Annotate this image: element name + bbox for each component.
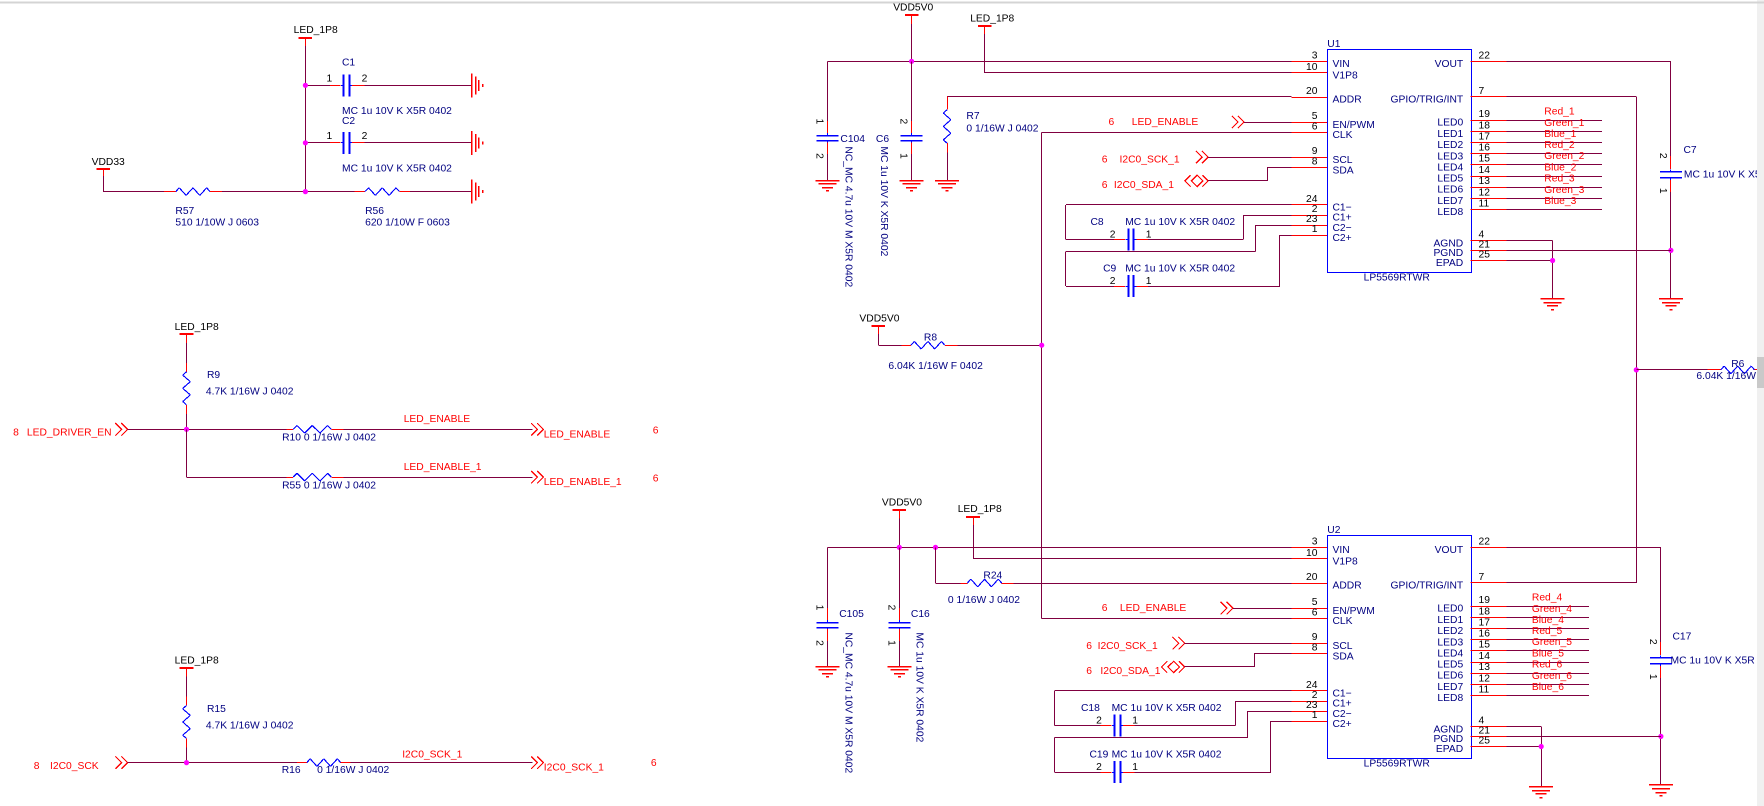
svg-text:10: 10 [1306, 548, 1318, 559]
svg-text:R55 0 1/16W J 0402: R55 0 1/16W J 0402 [282, 481, 376, 492]
svg-text:25: 25 [1479, 250, 1491, 261]
svg-text:GPIO/TRIG/INT: GPIO/TRIG/INT [1391, 95, 1464, 106]
svg-text:C18: C18 [1081, 703, 1100, 714]
svg-text:R57: R57 [175, 206, 194, 217]
svg-text:MC 1u 10V K X5R 0402: MC 1u 10V K X5R 0402 [1671, 655, 1764, 666]
svg-text:1: 1 [1146, 230, 1152, 241]
svg-text:4.7K 1/16W J 0402: 4.7K 1/16W J 0402 [206, 720, 294, 731]
svg-text:SDA: SDA [1333, 165, 1354, 176]
svg-text:LED6: LED6 [1437, 671, 1463, 682]
svg-text:R56: R56 [365, 206, 384, 217]
svg-text:R6: R6 [1731, 359, 1744, 370]
svg-text:2: 2 [1110, 276, 1116, 287]
svg-text:20: 20 [1306, 86, 1318, 97]
svg-text:LED7: LED7 [1437, 196, 1463, 207]
svg-text:8: 8 [13, 427, 19, 438]
svg-text:LED0: LED0 [1437, 604, 1463, 615]
svg-text:12: 12 [1479, 187, 1491, 198]
svg-text:2: 2 [814, 640, 825, 646]
svg-text:I2C0_SDA_1: I2C0_SDA_1 [1114, 180, 1174, 191]
svg-text:25: 25 [1479, 736, 1491, 747]
svg-text:2: 2 [1647, 639, 1658, 645]
svg-text:R16: R16 [282, 765, 301, 776]
svg-text:LED2: LED2 [1437, 626, 1463, 637]
svg-text:Red_6: Red_6 [1532, 660, 1563, 671]
svg-text:2: 2 [814, 153, 825, 159]
svg-text:MC 1u 10V K X5R 0402: MC 1u 10V K X5R 0402 [1112, 703, 1222, 714]
svg-text:15: 15 [1479, 640, 1491, 651]
svg-text:6: 6 [653, 426, 659, 437]
svg-text:CLK: CLK [1333, 130, 1353, 141]
svg-text:U1: U1 [1327, 39, 1340, 50]
svg-text:0 1/16W J 0402: 0 1/16W J 0402 [317, 765, 389, 776]
svg-text:LED_ENABLE_1: LED_ENABLE_1 [404, 462, 482, 473]
svg-text:LP5569RTWR: LP5569RTWR [1364, 759, 1430, 770]
svg-text:I2C0_SCK_1: I2C0_SCK_1 [1120, 154, 1180, 165]
svg-text:LED1: LED1 [1437, 129, 1463, 140]
svg-text:8: 8 [1312, 643, 1318, 654]
svg-text:12: 12 [1479, 673, 1491, 684]
svg-text:620 1/10W F 0603: 620 1/10W F 0603 [365, 218, 450, 229]
svg-text:Blue_5: Blue_5 [1532, 649, 1564, 660]
svg-text:22: 22 [1479, 536, 1491, 547]
svg-text:22: 22 [1479, 50, 1491, 61]
svg-text:19: 19 [1479, 595, 1491, 606]
svg-text:6: 6 [1086, 641, 1092, 652]
svg-text:C16: C16 [911, 609, 930, 620]
svg-text:2: 2 [362, 131, 368, 142]
svg-text:LED_1P8: LED_1P8 [175, 656, 219, 667]
svg-text:19: 19 [1479, 109, 1491, 120]
svg-text:8: 8 [34, 761, 40, 772]
svg-text:6: 6 [1312, 122, 1318, 133]
svg-text:GPIO/TRIG/INT: GPIO/TRIG/INT [1391, 581, 1464, 592]
svg-text:3: 3 [1312, 50, 1318, 61]
svg-text:MC 1u 10V K X5R 0402: MC 1u 10V K X5R 0402 [878, 146, 889, 256]
svg-text:5: 5 [1312, 111, 1318, 122]
svg-text:Red_5: Red_5 [1532, 626, 1563, 637]
svg-text:16: 16 [1479, 629, 1491, 640]
svg-text:LED_1P8: LED_1P8 [970, 13, 1014, 24]
svg-text:C104: C104 [840, 134, 865, 145]
svg-text:VIN: VIN [1333, 545, 1350, 556]
svg-text:1: 1 [898, 153, 909, 159]
svg-text:C7: C7 [1684, 145, 1697, 156]
svg-text:1: 1 [1132, 716, 1138, 727]
svg-text:14: 14 [1479, 651, 1491, 662]
svg-text:V1P8: V1P8 [1333, 71, 1358, 82]
svg-text:510 1/10W J 0603: 510 1/10W J 0603 [175, 218, 259, 229]
svg-text:Green_4: Green_4 [1532, 604, 1572, 615]
svg-text:7: 7 [1479, 86, 1485, 97]
svg-text:6: 6 [1102, 603, 1108, 614]
svg-text:LED5: LED5 [1437, 660, 1463, 671]
svg-text:3: 3 [1312, 536, 1318, 547]
svg-text:9: 9 [1312, 632, 1318, 643]
svg-text:MC 1u 10V K X5R 0402: MC 1u 10V K X5R 0402 [1684, 169, 1764, 180]
svg-text:EN/PWM: EN/PWM [1333, 606, 1375, 617]
svg-text:LED3: LED3 [1437, 637, 1463, 648]
svg-text:LED_ENABLE: LED_ENABLE [404, 414, 471, 425]
svg-text:1: 1 [1312, 224, 1318, 235]
svg-text:6: 6 [653, 473, 659, 484]
svg-text:LED2: LED2 [1437, 140, 1463, 151]
svg-text:Red_1: Red_1 [1544, 107, 1575, 118]
svg-text:V1P8: V1P8 [1333, 557, 1358, 568]
svg-text:R9: R9 [207, 370, 220, 381]
svg-text:13: 13 [1479, 662, 1491, 673]
svg-text:SDA: SDA [1333, 651, 1354, 662]
svg-text:C8: C8 [1091, 217, 1104, 228]
svg-text:Blue_4: Blue_4 [1532, 615, 1564, 626]
svg-text:R24: R24 [983, 571, 1002, 582]
svg-text:U2: U2 [1327, 525, 1340, 536]
svg-text:2: 2 [898, 119, 909, 125]
svg-text:Blue_6: Blue_6 [1532, 682, 1564, 693]
svg-text:Green_2: Green_2 [1544, 151, 1584, 162]
svg-text:I2C0_SCK_1: I2C0_SCK_1 [402, 750, 462, 761]
svg-text:Red_4: Red_4 [1532, 593, 1563, 604]
svg-text:I2C0_SCK: I2C0_SCK [50, 761, 99, 772]
svg-text:LED8: LED8 [1437, 693, 1463, 704]
svg-text:LED5: LED5 [1437, 174, 1463, 185]
svg-text:9: 9 [1312, 146, 1318, 157]
svg-text:18: 18 [1479, 606, 1491, 617]
svg-text:R8: R8 [924, 332, 937, 343]
svg-text:ADDR: ADDR [1333, 581, 1362, 592]
svg-text:13: 13 [1479, 176, 1491, 187]
svg-text:7: 7 [1479, 572, 1485, 583]
svg-text:C9: C9 [1103, 264, 1116, 275]
svg-text:MC 1u 10V K X5R 0402: MC 1u 10V K X5R 0402 [342, 106, 452, 117]
svg-text:VIN: VIN [1333, 59, 1350, 70]
svg-text:C6: C6 [876, 134, 889, 145]
svg-text:MC 1u 10V K X5R 0402: MC 1u 10V K X5R 0402 [914, 632, 925, 742]
svg-text:2: 2 [1096, 716, 1102, 727]
svg-text:R7: R7 [966, 111, 979, 122]
svg-text:LED4: LED4 [1437, 648, 1463, 659]
svg-text:R10 0 1/16W J 0402: R10 0 1/16W J 0402 [282, 433, 376, 444]
svg-text:LED_ENABLE: LED_ENABLE [544, 429, 611, 440]
svg-text:6.04K 1/16W F 0402: 6.04K 1/16W F 0402 [1696, 371, 1764, 382]
svg-text:1: 1 [1146, 276, 1152, 287]
svg-text:1: 1 [1312, 710, 1318, 721]
svg-text:20: 20 [1306, 572, 1318, 583]
svg-text:1: 1 [327, 74, 333, 85]
svg-text:Green_6: Green_6 [1532, 671, 1572, 682]
svg-text:LED4: LED4 [1437, 162, 1463, 173]
svg-text:6: 6 [1312, 608, 1318, 619]
svg-text:6.04K 1/16W F 0402: 6.04K 1/16W F 0402 [888, 361, 983, 372]
svg-text:VOUT: VOUT [1435, 59, 1464, 70]
svg-text:18: 18 [1479, 120, 1491, 131]
svg-text:MC 1u 10V K X5R 0402: MC 1u 10V K X5R 0402 [1125, 264, 1235, 275]
svg-text:8: 8 [1312, 157, 1318, 168]
svg-text:EN/PWM: EN/PWM [1333, 120, 1375, 131]
svg-text:2: 2 [1096, 762, 1102, 773]
svg-text:CLK: CLK [1333, 616, 1353, 627]
svg-text:LED_ENABLE_1: LED_ENABLE_1 [544, 477, 622, 488]
svg-text:C105: C105 [839, 609, 864, 620]
svg-text:Red_2: Red_2 [1544, 140, 1575, 151]
svg-text:Green_1: Green_1 [1544, 118, 1584, 129]
svg-text:VOUT: VOUT [1435, 545, 1464, 556]
svg-text:ADDR: ADDR [1333, 95, 1362, 106]
svg-text:Green_3: Green_3 [1544, 185, 1584, 196]
svg-text:LED_1P8: LED_1P8 [175, 322, 219, 333]
svg-text:1: 1 [1132, 762, 1138, 773]
svg-text:17: 17 [1479, 617, 1491, 628]
svg-text:LP5569RTWR: LP5569RTWR [1364, 273, 1430, 284]
svg-text:SCL: SCL [1333, 641, 1353, 652]
svg-text:VDD5V0: VDD5V0 [893, 3, 933, 14]
svg-text:17: 17 [1479, 131, 1491, 142]
svg-text:MC 1u 10V K X5R 0402: MC 1u 10V K X5R 0402 [1112, 750, 1222, 761]
svg-text:6: 6 [1109, 117, 1115, 128]
svg-text:1: 1 [814, 605, 825, 611]
svg-text:LED_DRIVER_EN: LED_DRIVER_EN [27, 427, 112, 438]
svg-text:6: 6 [651, 758, 657, 769]
svg-text:NC_MC 4.7u 10V M X5R 0402: NC_MC 4.7u 10V M X5R 0402 [843, 632, 854, 773]
svg-text:MC 1u 10V K X5R 0402: MC 1u 10V K X5R 0402 [342, 163, 452, 174]
svg-text:11: 11 [1479, 684, 1490, 695]
svg-text:LED_ENABLE: LED_ENABLE [1132, 117, 1199, 128]
svg-text:LED8: LED8 [1437, 207, 1463, 218]
svg-text:LED3: LED3 [1437, 151, 1463, 162]
svg-text:1: 1 [327, 131, 333, 142]
svg-text:EPAD: EPAD [1436, 258, 1463, 269]
svg-text:VDD33: VDD33 [92, 157, 125, 168]
svg-text:11: 11 [1479, 198, 1490, 209]
svg-text:16: 16 [1479, 143, 1491, 154]
svg-text:VDD5V0: VDD5V0 [859, 314, 899, 325]
svg-text:LED1: LED1 [1437, 615, 1463, 626]
svg-text:6: 6 [1102, 154, 1108, 165]
svg-text:C2: C2 [342, 116, 355, 127]
svg-text:2: 2 [1657, 153, 1668, 159]
svg-text:I2C0_SCK_1: I2C0_SCK_1 [544, 763, 604, 774]
svg-text:1: 1 [886, 640, 897, 646]
svg-text:2: 2 [886, 605, 897, 611]
svg-text:0 1/16W J 0402: 0 1/16W J 0402 [966, 124, 1038, 135]
svg-text:10: 10 [1306, 62, 1318, 73]
svg-text:Red_3: Red_3 [1544, 174, 1575, 185]
svg-text:LED6: LED6 [1437, 185, 1463, 196]
svg-text:Blue_3: Blue_3 [1544, 196, 1576, 207]
svg-text:2: 2 [1110, 230, 1116, 241]
svg-text:14: 14 [1479, 165, 1491, 176]
svg-text:6: 6 [1102, 180, 1108, 191]
svg-text:C2+: C2+ [1333, 233, 1352, 244]
svg-text:15: 15 [1479, 154, 1491, 165]
svg-text:0 1/16W J 0402: 0 1/16W J 0402 [948, 595, 1020, 606]
svg-text:Blue_2: Blue_2 [1544, 163, 1576, 174]
svg-text:SCL: SCL [1333, 155, 1353, 166]
svg-text:LED0: LED0 [1437, 118, 1463, 129]
svg-text:4.7K 1/16W J 0402: 4.7K 1/16W J 0402 [206, 387, 294, 398]
svg-text:1: 1 [1657, 188, 1668, 194]
svg-text:LED_ENABLE: LED_ENABLE [1120, 603, 1187, 614]
svg-text:5: 5 [1312, 597, 1318, 608]
svg-text:C17: C17 [1673, 631, 1692, 642]
svg-text:6: 6 [1086, 666, 1092, 677]
svg-text:C1: C1 [342, 58, 355, 69]
svg-text:2: 2 [362, 74, 368, 85]
svg-text:LED_1P8: LED_1P8 [958, 504, 1002, 515]
svg-text:Blue_1: Blue_1 [1544, 129, 1576, 140]
svg-text:MC 1u 10V K X5R 0402: MC 1u 10V K X5R 0402 [1125, 217, 1235, 228]
svg-text:NC_MC 4.7u 10V M X5R 0402: NC_MC 4.7u 10V M X5R 0402 [843, 146, 854, 287]
svg-text:I2C0_SCK_1: I2C0_SCK_1 [1098, 641, 1158, 652]
svg-text:1: 1 [814, 119, 825, 125]
svg-text:I2C0_SDA_1: I2C0_SDA_1 [1100, 666, 1160, 677]
svg-text:1: 1 [1647, 674, 1658, 680]
svg-text:Green_5: Green_5 [1532, 637, 1572, 648]
svg-text:C2+: C2+ [1333, 719, 1352, 730]
svg-text:LED_1P8: LED_1P8 [294, 25, 338, 36]
svg-text:R15: R15 [207, 704, 226, 715]
svg-text:LED7: LED7 [1437, 682, 1463, 693]
svg-text:C19: C19 [1090, 750, 1109, 761]
svg-text:EPAD: EPAD [1436, 744, 1463, 755]
svg-text:VDD5V0: VDD5V0 [882, 497, 922, 508]
